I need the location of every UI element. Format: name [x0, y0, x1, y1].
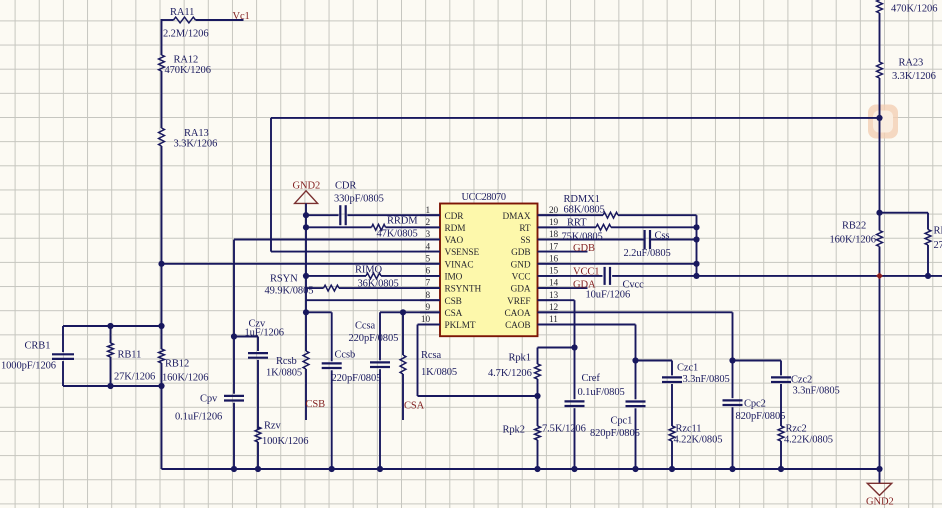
resistor RRT: [538, 217, 697, 242]
svg-text:Rcsb: Rcsb: [276, 356, 297, 367]
svg-text:3: 3: [425, 230, 430, 240]
capacitor Czc2: [771, 361, 840, 427]
wire VSENSE: [271, 118, 440, 252]
wire CAOA: [538, 312, 733, 398]
resistor RDMX1: [538, 194, 697, 218]
svg-text:RA12: RA12: [174, 54, 199, 65]
svg-text:CAOA: CAOA: [505, 309, 531, 319]
wire: [880, 212, 929, 214]
svg-text:4.22K/0805: 4.22K/0805: [784, 435, 833, 446]
node rail-GND: [693, 261, 699, 267]
node bus-Cref: [571, 466, 577, 472]
svg-text:Rzv: Rzv: [264, 421, 281, 432]
svg-text:SS: SS: [520, 236, 530, 246]
svg-text:16: 16: [549, 254, 559, 264]
svg-text:15: 15: [549, 267, 559, 277]
svg-text:0.1uF/1206: 0.1uF/1206: [175, 412, 222, 423]
svg-text:RRDM: RRDM: [387, 216, 418, 227]
wire GND2 rail: [305, 203, 307, 351]
node bus-Cpc1: [632, 466, 638, 472]
node bus-Rzc2: [778, 466, 784, 472]
svg-text:470K/1206: 470K/1206: [891, 3, 937, 14]
svg-text:CSB: CSB: [306, 399, 326, 410]
resistor Rzc2: [778, 424, 833, 470]
svg-text:160K/1206: 160K/1206: [162, 373, 208, 384]
node bus-Ccsb: [329, 466, 335, 472]
svg-text:Rzc11: Rzc11: [676, 424, 702, 435]
svg-text:RB22: RB22: [842, 221, 866, 232]
svg-text:160K/1206: 160K/1206: [830, 235, 876, 246]
node bus-Ccsa: [377, 466, 383, 472]
resistor Rcsb: [266, 351, 309, 420]
svg-text:UCC28070: UCC28070: [462, 192, 506, 203]
svg-text:PKLMT: PKLMT: [445, 321, 476, 331]
resistor RB11: [108, 326, 156, 386]
capacitor Ccsa: [349, 312, 399, 469]
net label GDA: [573, 280, 596, 291]
resistor RB23: [925, 213, 942, 276]
wire VAO: [234, 240, 440, 394]
wire: [271, 117, 880, 119]
svg-text:VSENSE: VSENSE: [445, 248, 480, 258]
svg-text:4.7K/1206: 4.7K/1206: [488, 368, 532, 379]
resistor RB12: [159, 349, 209, 384]
wire: [733, 360, 782, 362]
node bus-Cpv: [231, 466, 261, 472]
svg-text:RB12: RB12: [165, 359, 189, 370]
node rail-csb: [303, 309, 309, 315]
svg-text:CDR: CDR: [335, 181, 356, 192]
net label Vc1: [233, 11, 250, 22]
node VAO-branch: [231, 333, 237, 339]
svg-text:GDB: GDB: [511, 248, 530, 258]
node pin1: [303, 212, 309, 218]
svg-text:20: 20: [549, 206, 559, 216]
wire: [63, 325, 162, 327]
node bus-Cpc2: [729, 466, 735, 472]
resistor RRDM: [306, 216, 440, 240]
node rail-RT: [693, 224, 699, 230]
net label GDB: [573, 243, 595, 254]
svg-text:470K/1206: 470K/1206: [165, 65, 211, 76]
svg-text:17: 17: [549, 242, 559, 252]
resistor RA23: [877, 58, 936, 83]
svg-text:3.3nF/0805: 3.3nF/0805: [683, 374, 730, 385]
node Rpk-mid: [534, 393, 540, 399]
svg-text:Ccsa: Ccsa: [355, 321, 375, 332]
capacitor Czv: [245, 319, 284, 430]
node CRB1-bottom: [107, 383, 164, 389]
wire VREF: [538, 300, 575, 399]
capacitor CRB1: [1, 326, 74, 386]
node VSENSE-join: [876, 115, 882, 121]
resistor RA12: [159, 54, 211, 76]
svg-text:220pF/0805: 220pF/0805: [349, 333, 399, 344]
svg-text:3.3nF/0805: 3.3nF/0805: [793, 386, 840, 397]
wire: [879, 247, 881, 470]
node rail-VCC: [693, 273, 699, 279]
svg-text:RB11: RB11: [118, 350, 142, 361]
svg-text:10: 10: [421, 315, 431, 325]
node bus-Rpk2: [534, 466, 540, 472]
net label CSB: [306, 399, 326, 410]
resistor RA21: [877, 0, 938, 14]
svg-text:GND2: GND2: [866, 497, 894, 508]
capacitor Cpv: [175, 394, 244, 470]
svg-text:VCC: VCC: [512, 273, 531, 283]
wire: [636, 360, 673, 362]
svg-text:Cref: Cref: [582, 373, 601, 384]
svg-text:1: 1: [425, 206, 430, 216]
capacitor Cref: [565, 373, 625, 469]
node VREF-Rpk1: [571, 344, 577, 350]
svg-text:13: 13: [549, 291, 559, 301]
node pin2: [303, 224, 309, 230]
svg-text:2: 2: [425, 218, 430, 228]
node pin6: [303, 273, 309, 279]
resistor RB22: [830, 221, 883, 247]
svg-text:VCC1: VCC1: [573, 267, 599, 278]
svg-text:12: 12: [549, 303, 559, 313]
wire CSA pin: [380, 311, 440, 313]
svg-text:RT: RT: [519, 224, 531, 234]
power port GND2: [293, 181, 321, 204]
svg-text:49.9K/0805: 49.9K/0805: [265, 286, 314, 297]
wire CAOB: [538, 325, 636, 400]
svg-text:5: 5: [425, 254, 430, 264]
no-ERC marker: [876, 273, 883, 280]
op-amp U1 UCC28070: [420, 192, 559, 336]
svg-text:220pF/0805: 220pF/0805: [332, 373, 382, 384]
svg-text:75K/0805: 75K/0805: [562, 232, 603, 243]
wire PKLMT: [418, 325, 538, 397]
svg-text:GND2: GND2: [293, 181, 321, 192]
svg-text:2.2M/1206: 2.2M/1206: [163, 29, 208, 40]
wire: [161, 363, 163, 469]
resistor Rzv: [255, 421, 308, 470]
wire: [161, 71, 163, 128]
svg-text:RSYN: RSYN: [270, 273, 298, 284]
svg-text:7: 7: [425, 279, 430, 289]
svg-text:Rpk1: Rpk1: [509, 353, 531, 364]
svg-text:11: 11: [549, 315, 558, 325]
wire: [306, 311, 332, 313]
node pin9: [400, 309, 406, 315]
capacitor Cpc1: [590, 402, 646, 470]
svg-text:9: 9: [425, 303, 430, 313]
net label CSA: [404, 401, 425, 412]
capacitor Cvcc: [538, 267, 942, 301]
svg-text:CSA: CSA: [445, 309, 463, 319]
svg-text:VINAC: VINAC: [445, 260, 474, 270]
wire GDA pin: [538, 287, 588, 289]
svg-text:RIMO: RIMO: [355, 264, 383, 275]
capacitor Czc1: [662, 361, 730, 427]
svg-text:Css: Css: [655, 230, 670, 241]
node CAOA-branch: [729, 357, 735, 363]
svg-text:0.1uF/0805: 0.1uF/0805: [578, 387, 625, 398]
svg-text:Cpv: Cpv: [200, 394, 218, 405]
svg-text:68K/0805: 68K/0805: [564, 205, 605, 216]
svg-text:IMO: IMO: [445, 273, 463, 283]
node rail-SS: [693, 236, 699, 242]
svg-text:1K/0805: 1K/0805: [266, 368, 302, 379]
svg-text:Vc1: Vc1: [233, 11, 250, 22]
svg-text:RA23: RA23: [899, 58, 924, 69]
svg-text:1K/0805: 1K/0805: [421, 367, 457, 378]
svg-text:CSB: CSB: [445, 297, 462, 307]
svg-text:27K/1206: 27K/1206: [934, 240, 942, 251]
resistor RA11: [162, 7, 244, 40]
svg-text:330pF/0805: 330pF/0805: [334, 194, 384, 205]
svg-text:27K/1206: 27K/1206: [114, 372, 155, 383]
wire: [161, 19, 163, 55]
node RB22-top: [876, 210, 882, 216]
svg-text:47K/0805: 47K/0805: [377, 229, 418, 240]
svg-text:RDM: RDM: [445, 224, 466, 234]
svg-text:RSYNTH: RSYNTH: [445, 285, 482, 295]
svg-text:4.22K/0805: 4.22K/0805: [674, 435, 723, 446]
svg-text:RB23: RB23: [934, 226, 942, 237]
svg-text:VREF: VREF: [507, 297, 530, 307]
power port GND2 bottom: [866, 469, 894, 508]
svg-text:3.3K/1206: 3.3K/1206: [174, 139, 218, 150]
svg-text:6: 6: [425, 267, 430, 277]
svg-text:4: 4: [425, 242, 430, 252]
node CAOB-branch: [632, 357, 638, 363]
capacitor CDR: [306, 181, 440, 226]
wire: [161, 146, 163, 349]
wire: [538, 347, 575, 349]
node bus-Rzc11: [669, 466, 675, 472]
wire: [234, 336, 258, 338]
svg-text:Cpc2: Cpc2: [744, 399, 766, 410]
resistor Rpk2: [503, 396, 586, 469]
svg-text:Rpk2: Rpk2: [503, 424, 525, 435]
node CRB1-top: [107, 323, 164, 329]
svg-text:820pF/0805: 820pF/0805: [590, 428, 640, 439]
resistor Rzc11: [669, 424, 722, 470]
resistor RIMO: [306, 264, 440, 289]
svg-text:VAO: VAO: [445, 236, 464, 246]
svg-text:RDMX1: RDMX1: [564, 194, 600, 205]
svg-text:19: 19: [549, 218, 559, 228]
svg-text:Czc2: Czc2: [791, 375, 812, 386]
svg-text:CSA: CSA: [404, 401, 425, 412]
svg-text:100K/1206: 100K/1206: [262, 436, 308, 447]
svg-text:GDB: GDB: [573, 243, 595, 254]
wire VINAC: [162, 263, 441, 265]
wire: [879, 13, 881, 62]
svg-text:CRB1: CRB1: [25, 341, 51, 352]
capacitor Ccsb: [322, 312, 382, 469]
svg-text:Ccsb: Ccsb: [335, 350, 356, 361]
svg-text:1uF/1206: 1uF/1206: [245, 328, 284, 339]
wire: [879, 78, 881, 231]
node RB23-bottom: [925, 273, 931, 279]
highlight marker: [868, 105, 898, 139]
svg-text:RA13: RA13: [184, 128, 209, 139]
svg-text:8: 8: [425, 291, 430, 301]
capacitor Css: [538, 230, 697, 259]
svg-text:2.2uF/0805: 2.2uF/0805: [624, 248, 671, 259]
svg-text:RA11: RA11: [170, 7, 194, 18]
svg-text:DMAX: DMAX: [502, 212, 530, 222]
svg-text:820pF/0805: 820pF/0805: [736, 411, 786, 422]
wire GND bus: [162, 468, 880, 470]
svg-text:18: 18: [549, 230, 559, 240]
svg-text:Czc1: Czc1: [677, 363, 698, 374]
node VINAC: [158, 261, 164, 267]
node bus-end: [876, 466, 882, 472]
resistor RSYN: [265, 273, 441, 296]
svg-text:Cpc1: Cpc1: [611, 416, 633, 427]
net label VCC1: [573, 267, 599, 278]
svg-text:Rzc2: Rzc2: [786, 424, 807, 435]
svg-text:CAOB: CAOB: [505, 321, 530, 331]
wire GND pin: [538, 263, 697, 265]
svg-text:14: 14: [549, 279, 559, 289]
svg-text:3.3K/1206: 3.3K/1206: [892, 71, 936, 82]
resistor Rpk1: [488, 348, 540, 397]
resistor RA13: [159, 128, 218, 150]
svg-text:Rcsa: Rcsa: [421, 350, 441, 361]
svg-text:GDA: GDA: [573, 280, 596, 291]
capacitor Cpc2: [723, 399, 786, 470]
svg-text:CDR: CDR: [445, 212, 465, 222]
wire GDB pin: [538, 251, 588, 253]
wire CSB pin: [306, 299, 440, 301]
svg-text:RRT: RRT: [567, 217, 587, 228]
wire rail: [696, 215, 698, 276]
wire: [63, 385, 162, 387]
svg-text:7.5K/1206: 7.5K/1206: [542, 424, 586, 435]
svg-text:1000pF/1206: 1000pF/1206: [1, 361, 56, 372]
svg-text:10uF/1206: 10uF/1206: [586, 290, 631, 301]
svg-text:GDA: GDA: [511, 285, 531, 295]
svg-text:GND: GND: [511, 260, 531, 270]
resistor Rcsa: [400, 312, 457, 420]
